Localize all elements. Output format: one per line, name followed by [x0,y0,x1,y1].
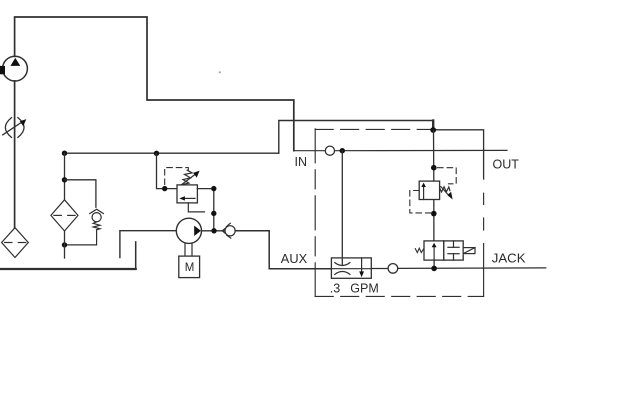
stray plot speck [219,71,221,73]
IN port circle [325,146,334,155]
svg-text:GPM: GPM [350,281,378,295]
wire RV1 outlet to pump node [197,189,213,231]
svg-text:IN: IN [295,155,308,169]
IN line [294,150,326,152]
filter F1 (left diamond to tank) [2,228,29,258]
solenoid SV1 return spring [415,248,424,252]
solenoid valve SV1 left cell (flow) [424,241,444,260]
junction dot RV1-L [162,186,167,191]
variable restrictor FC1 on pump line [3,118,27,138]
JACK line [371,268,388,270]
svg-text:.3: .3 [330,281,340,295]
junction dot RV2-T [431,165,437,171]
main vertical wire to relief RV2 and solenoid SV1 [433,130,435,181]
pump P2 suction from tank [120,231,176,258]
relief valve RV2 body [419,181,439,199]
junction dot A2 [154,151,159,156]
check valve CV2 on pump outlet [222,223,235,238]
junction dot JACK-A [431,266,437,272]
tank T1 right lip [135,242,137,269]
relief valve RV1 spring and adjust arrow [180,170,200,186]
wire OUT branch [433,130,483,179]
solenoid valve SV1 right cell (blocked) [444,241,463,260]
junction dot D1 [211,211,216,216]
wire pump P1 down to filter F1 [14,81,16,228]
junction dot RV1-R [211,186,216,191]
junction dot IN-B [340,148,345,153]
wire bypass branch to check valve CV1 [65,180,96,207]
svg-text:JACK: JACK [492,250,526,265]
pump P1 (top-left) [0,56,27,81]
node A main return line y=153 [65,152,279,154]
junction dot A3 [62,177,67,182]
tank T1 bottom line [0,268,136,270]
shaft P2-M [184,243,186,256]
junction dot A1 [62,151,67,156]
RV1 drain line [188,203,204,212]
pump P2 (motor driven) [176,218,201,243]
manifold dashed enclosure [315,129,483,297]
wire return line up-over to OUT side [279,121,433,154]
relief valve RV2 spring and adjust arrow [440,187,453,200]
wire CV2 to AUX [235,231,331,269]
junction dot A4 [62,242,67,247]
relief valve RV2 vent dashed (left) [410,191,431,213]
wire relief RV1 inlet branch [157,153,178,188]
filter F2 diamond [51,200,78,231]
check valve CV1 (filter bypass) [65,209,104,245]
motor M1 [179,256,200,278]
JACK port circle [388,264,398,274]
flow control FC2 .3 GPM block [331,258,371,278]
svg-text:M: M [185,262,195,274]
pump P2 outlet wire [202,230,225,232]
wire filter F2 to tank [64,231,66,258]
wire top-left supply from pump P1 up and across [15,17,294,151]
svg-text:OUT: OUT [493,158,520,172]
junction dot RV2-B [431,211,437,217]
wire IN branch down into FC2 [341,151,343,265]
junction dot OUT-A [430,127,436,133]
svg-text:AUX: AUX [281,251,308,266]
junction dot P2-OUT [211,228,216,233]
relief valve RV2 pilot dashed (top right) [438,168,457,184]
relief valve RV1 pilot dashed line [165,168,189,185]
solenoid SV1 coil [463,248,475,254]
relief valve RV1 body [177,185,197,203]
wire down to filter F2 [64,153,66,200]
